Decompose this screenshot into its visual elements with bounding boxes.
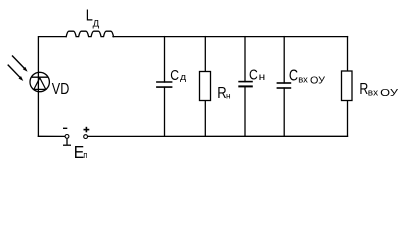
wire top rail [113,36,348,38]
resistor R_вх ОУ box [342,71,353,101]
wire branch C_Д bottom [164,87,166,136]
battery terminal plus circle [84,135,88,139]
battery plus sign [84,127,90,133]
label R_н [217,85,231,102]
svg-text:С: С [289,67,298,84]
svg-text:вх: вх [298,75,308,86]
svg-text:ОУ: ОУ [380,88,399,99]
photodiode VD circle [30,72,49,91]
battery terminal minus circle [65,135,69,139]
wire left vertical + top-left corner [38,37,66,137]
inductor L_Д (4 flat-top humps) [66,31,113,36]
svg-text:вх: вх [368,88,379,99]
wire bottom rail right of battery [88,135,348,137]
svg-text:С: С [170,67,179,84]
wire branch C_вх bottom [283,88,285,136]
battery cell symbol below minus terminal [63,139,71,146]
battery minus sign [63,127,67,129]
svg-text:Д: Д [93,19,100,29]
label L_Д [86,7,100,28]
wire bottom rail left segment to battery minus terminal [38,135,65,137]
wire branch C_н bottom [244,87,246,137]
capacitor C_н plates [238,82,253,87]
label C_вх ОУ [289,67,326,86]
svg-text:VD: VD [52,81,70,98]
wire right vertical top stub [347,37,349,71]
wire branch C_вх top [283,37,285,83]
photodiode VD cathode bar [32,76,48,78]
svg-text:д: д [180,72,187,82]
label E_п [74,142,88,162]
wire branch C_Д top [164,37,166,82]
wire right vertical bottom stub [347,101,349,137]
svg-text:ОУ: ОУ [310,76,326,87]
label R_вх ОУ [359,81,398,99]
svg-text:С: С [249,66,258,83]
label C_н [249,66,265,83]
svg-text:н: н [259,72,266,83]
wire branch R_н top [204,37,206,72]
light arrow 1 [12,56,28,72]
wire branch R_н bottom [204,101,206,137]
svg-text:н: н [226,91,231,101]
capacitor C_вх ОУ plates [277,83,292,88]
light arrow 2 [8,65,24,81]
resistor R_н box [200,72,211,101]
svg-text:п: п [83,150,87,160]
wire branch C_н top [244,37,246,82]
capacitor C_Д plates [156,82,172,87]
photodiode VD triangle [34,78,46,90]
label C_Д [170,67,187,84]
